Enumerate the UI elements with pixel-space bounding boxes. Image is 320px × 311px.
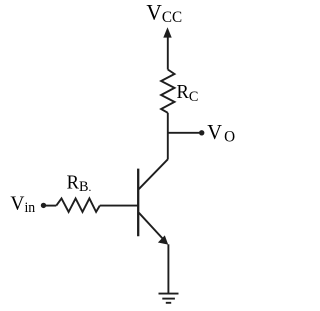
power arrow V_CC (163, 27, 171, 37)
svg-text:RB.: RB. (67, 172, 92, 195)
resistor R_C (161, 70, 174, 113)
svg-text:RC: RC (177, 81, 199, 105)
wire base (resistor to transistor) (100, 205, 138, 207)
wire V_CC vertical lead (167, 36, 169, 70)
wire V_in lead (45, 205, 56, 207)
wire emitter diagonal (139, 213, 164, 240)
node V_in terminal dot (41, 203, 46, 208)
node V_O junction dot (199, 130, 204, 135)
svg-text:VCC: VCC (146, 0, 182, 26)
transistor Q1 emitter arrowhead (158, 235, 168, 244)
ground (159, 294, 179, 303)
wire collector vertical (resistor bottom to elbow) (167, 113, 169, 160)
wire emitter vertical to ground (167, 244, 169, 293)
svg-text:VO: VO (207, 119, 235, 145)
transistor Q1 base bar (137, 169, 139, 237)
resistor R_B (56, 198, 100, 212)
wire V_O tap (168, 132, 200, 134)
wire collector diagonal (139, 159, 168, 189)
svg-text:Vin: Vin (10, 192, 35, 216)
